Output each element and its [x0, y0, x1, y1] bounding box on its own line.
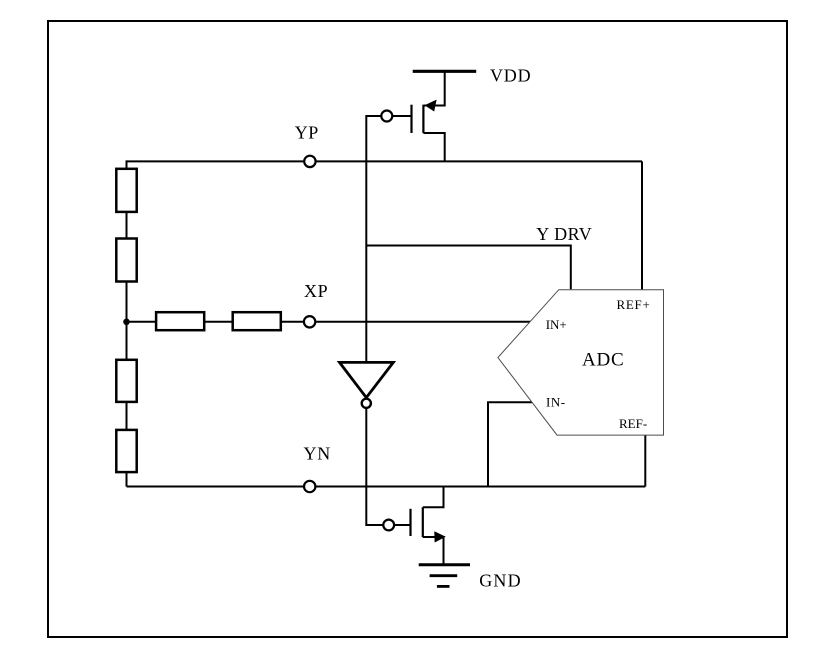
ground symbol	[419, 565, 470, 587]
wire R5-R6	[126, 402, 128, 430]
resistor R6	[116, 430, 136, 472]
wire R3-R4	[204, 321, 233, 323]
svg-text:GND: GND	[479, 571, 522, 591]
wire NMOS source to GND	[423, 537, 444, 565]
wire inverter input vertical	[366, 116, 381, 362]
resistor R3	[156, 312, 204, 330]
wire NMOS gate segment	[394, 524, 410, 526]
resistor R4	[233, 312, 281, 330]
svg-text:REF-: REF-	[619, 416, 647, 431]
wire inverter output vertical	[366, 408, 383, 525]
node junction dot	[123, 319, 130, 326]
wire R2-R5 through node	[126, 282, 128, 360]
resistor R2	[116, 239, 136, 282]
wire ADC REF- down	[644, 435, 646, 487]
inverter U1	[340, 362, 394, 408]
terminal YP	[304, 156, 315, 167]
wire NMOS drain to YN	[423, 487, 444, 508]
wire ADC IN-	[488, 402, 532, 486]
svg-text:YP: YP	[295, 123, 319, 143]
resistor R1	[116, 169, 136, 212]
power VDD symbol	[413, 70, 477, 73]
wire YP horizontal	[127, 160, 643, 162]
svg-text:XP: XP	[304, 281, 328, 301]
ADC U2	[498, 290, 664, 435]
wire PMOS drain to YP	[423, 133, 444, 161]
wire chain top stub	[126, 160, 128, 168]
wire PMOS gate segment	[392, 115, 411, 117]
wire XP to ADC IN+	[281, 321, 531, 323]
wire node to R3	[127, 321, 157, 323]
svg-text:VDD: VDD	[490, 66, 531, 86]
wire R1-R2	[126, 212, 128, 239]
transistor Q2 NMOS	[383, 507, 445, 542]
wire YP right drop to ADC REF+	[641, 161, 643, 289]
terminal YN	[304, 481, 315, 492]
wire Y DRV	[366, 246, 571, 290]
svg-text:Y DRV: Y DRV	[536, 224, 592, 244]
svg-text:YN: YN	[304, 444, 332, 464]
wire R6 to YN corner	[126, 472, 128, 486]
svg-text:IN-: IN-	[546, 395, 566, 410]
transistor Q1 PMOS	[381, 100, 436, 133]
svg-text:IN+: IN+	[546, 317, 567, 332]
wire YN horizontal	[127, 486, 646, 488]
terminal XP	[304, 316, 315, 327]
svg-text:ADC: ADC	[582, 349, 625, 370]
svg-text:REF+: REF+	[617, 297, 651, 312]
wire VDD drop	[423, 71, 444, 105]
resistor R5	[116, 360, 136, 402]
